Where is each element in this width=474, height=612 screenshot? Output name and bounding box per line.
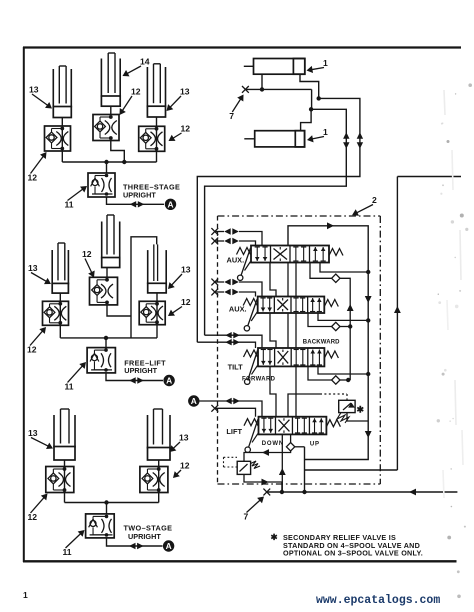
svg-text:www.epcatalogs.com: www.epcatalogs.com — [316, 594, 440, 607]
svg-text:BACKWARD: BACKWARD — [303, 340, 340, 346]
svg-text:13: 13 — [28, 263, 38, 273]
svg-text:11: 11 — [65, 200, 74, 210]
svg-text:TILT: TILT — [228, 363, 244, 372]
svg-text:1: 1 — [323, 58, 328, 68]
svg-text:13: 13 — [29, 85, 39, 95]
svg-text:UPRIGHT: UPRIGHT — [128, 532, 161, 541]
svg-text:UP: UP — [310, 442, 320, 448]
svg-text:12: 12 — [27, 345, 37, 355]
svg-text:A: A — [166, 376, 172, 386]
svg-text:1: 1 — [23, 590, 28, 600]
svg-text:12: 12 — [28, 512, 38, 522]
svg-text:✱: ✱ — [271, 532, 279, 542]
svg-text:13: 13 — [180, 87, 190, 97]
svg-text:DOWN: DOWN — [262, 441, 284, 447]
svg-text:AUX.: AUX. — [227, 256, 245, 265]
svg-text:7: 7 — [244, 512, 249, 522]
svg-text:A: A — [191, 396, 197, 406]
svg-text:13: 13 — [28, 428, 38, 438]
svg-text:1: 1 — [323, 127, 328, 137]
svg-text:UPRIGHT: UPRIGHT — [124, 366, 157, 375]
svg-text:14: 14 — [140, 57, 150, 67]
svg-text:13: 13 — [179, 433, 189, 443]
svg-text:12: 12 — [82, 249, 92, 259]
svg-text:A: A — [166, 541, 172, 551]
svg-text:OPTIONAL ON 3–SPOOL VALVE ONLY: OPTIONAL ON 3–SPOOL VALVE ONLY. — [283, 549, 423, 558]
svg-text:2: 2 — [372, 195, 377, 205]
svg-text:11: 11 — [63, 547, 72, 557]
svg-text:AUX.: AUX. — [229, 305, 247, 314]
svg-text:12: 12 — [181, 124, 191, 134]
svg-text:13: 13 — [181, 265, 191, 275]
svg-text:12: 12 — [180, 461, 190, 471]
svg-text:12: 12 — [131, 87, 141, 97]
svg-text:12: 12 — [28, 173, 38, 183]
svg-text:11: 11 — [65, 382, 74, 392]
svg-text:7: 7 — [229, 111, 234, 121]
svg-text:A: A — [167, 199, 173, 209]
svg-text:LIFT: LIFT — [226, 427, 242, 436]
svg-text:UPRIGHT: UPRIGHT — [123, 190, 156, 199]
svg-text:✱: ✱ — [357, 405, 365, 415]
svg-text:12: 12 — [181, 297, 191, 307]
